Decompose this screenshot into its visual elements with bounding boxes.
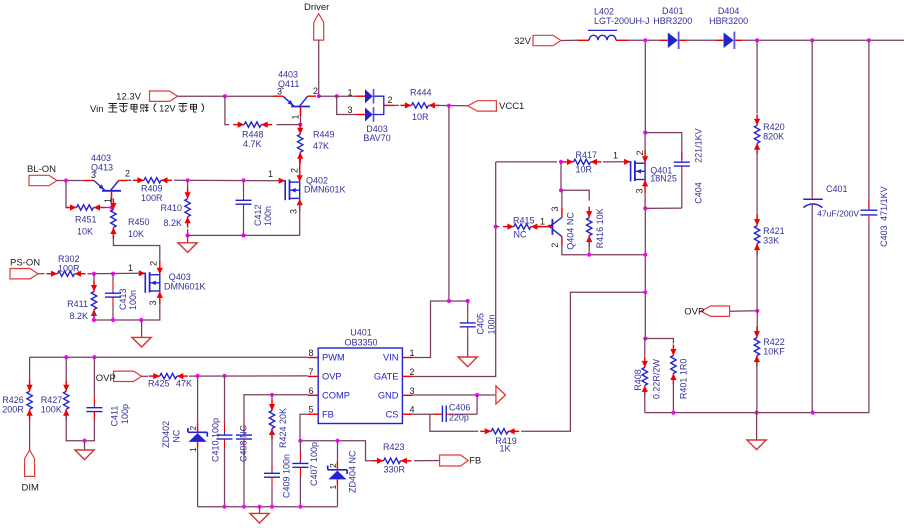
wire drain node up bbox=[644, 133, 646, 150]
svg-text:1: 1 bbox=[103, 198, 113, 203]
inductor L402 bbox=[577, 7, 649, 41]
resistor R426 bbox=[2, 380, 32, 420]
svg-text:1: 1 bbox=[328, 485, 338, 490]
svg-text:C406: C406 bbox=[449, 403, 471, 413]
port 32V bbox=[514, 35, 561, 47]
label Vin circuit annotation (Chinese) bbox=[90, 104, 204, 116]
wire ZD404 to gnd bus bbox=[337, 485, 339, 507]
svg-text:18N25: 18N25 bbox=[650, 174, 677, 184]
svg-text:10K: 10K bbox=[128, 229, 144, 239]
junction gnd bus C408 bbox=[242, 505, 246, 509]
svg-text:BAV70: BAV70 bbox=[363, 133, 390, 143]
capacitor C407 bbox=[292, 441, 319, 507]
transistor Q411 bbox=[273, 70, 318, 120]
svg-text:2: 2 bbox=[313, 86, 318, 96]
svg-text:COMP: COMP bbox=[322, 391, 350, 401]
wire R448 to Q411 pin1 bbox=[276, 124, 300, 126]
svg-text:R427: R427 bbox=[41, 395, 63, 405]
wire R449 to Q402 drain bbox=[299, 156, 301, 170]
svg-text:R444: R444 bbox=[410, 88, 432, 98]
wire R424 top link bbox=[271, 395, 273, 400]
wire R401 bottom bbox=[672, 380, 674, 413]
wire R408 top link bbox=[644, 339, 646, 357]
capacitor C401 bbox=[803, 184, 859, 413]
diode D404 bbox=[709, 6, 748, 49]
svg-text:PWM: PWM bbox=[322, 353, 345, 363]
junction BL-ON/R451 bbox=[64, 178, 68, 182]
port BL-ON bbox=[27, 164, 57, 186]
svg-text:1: 1 bbox=[128, 263, 133, 273]
wire R444 to VCC1 bbox=[431, 104, 468, 106]
svg-text:R451: R451 bbox=[75, 215, 97, 225]
svg-text:1: 1 bbox=[188, 447, 198, 452]
wire R450 to Q403 drain bbox=[113, 230, 159, 262]
wire Q413 pin1 link bbox=[111, 191, 113, 208]
svg-text:R410: R410 bbox=[160, 203, 182, 213]
junction rail gnd bbox=[755, 411, 759, 415]
junction 12.3V/R448 bbox=[223, 94, 227, 98]
svg-text:3: 3 bbox=[347, 105, 352, 115]
resistor R408 bbox=[633, 356, 662, 399]
wire R409 to Q402 gate bbox=[174, 179, 279, 181]
svg-text:C411: C411 bbox=[110, 406, 120, 427]
junction R417/Q404 bbox=[559, 160, 563, 164]
junction R424 top bbox=[270, 393, 274, 397]
junction rail C403 bbox=[867, 38, 871, 42]
junction R448/R449/Q411-1 bbox=[298, 123, 302, 127]
junction R411 top bbox=[92, 272, 96, 276]
junction C413 top bbox=[111, 272, 115, 276]
svg-text:2: 2 bbox=[635, 150, 645, 155]
svg-text:1: 1 bbox=[613, 151, 618, 161]
wire FB wire bbox=[300, 414, 308, 441]
wire C403 top bbox=[868, 40, 870, 207]
capacitor C406 bbox=[434, 395, 478, 422]
junction gnd stem bbox=[139, 318, 143, 322]
resistor R423 bbox=[373, 442, 412, 475]
svg-text:R448: R448 bbox=[242, 130, 264, 140]
resistor R411 bbox=[67, 281, 97, 322]
wire CS sense run bbox=[430, 414, 478, 431]
svg-text:10R: 10R bbox=[412, 112, 429, 122]
svg-text:10KF: 10KF bbox=[763, 347, 785, 357]
wire R416 bottom bbox=[588, 238, 590, 255]
capacitor C411 bbox=[86, 357, 130, 426]
junction R416/bus bbox=[587, 253, 591, 257]
junction rail drain tap bbox=[643, 38, 647, 42]
svg-text:47uF/200V: 47uF/200V bbox=[817, 209, 859, 219]
wire VIN wire bbox=[413, 301, 449, 358]
svg-text:GND: GND bbox=[378, 391, 399, 401]
diode D401 bbox=[653, 6, 692, 49]
svg-text:8.2K: 8.2K bbox=[69, 311, 88, 321]
port Driver bbox=[304, 2, 329, 40]
wire R417 feed bbox=[496, 161, 557, 163]
svg-text:0.22R/2W: 0.22R/2W bbox=[652, 359, 662, 400]
wire VIN node up bbox=[448, 106, 450, 301]
junction gnd bus stem bbox=[257, 505, 261, 509]
svg-text:R424 20K: R424 20K bbox=[278, 408, 288, 448]
svg-text:100n: 100n bbox=[487, 314, 497, 334]
resistor R422 bbox=[754, 327, 786, 367]
svg-text:2: 2 bbox=[550, 243, 560, 248]
junction rail C401 bbox=[810, 38, 814, 42]
svg-text:1: 1 bbox=[410, 348, 415, 358]
svg-text:NC: NC bbox=[172, 429, 182, 442]
capacitor C403 bbox=[860, 186, 889, 412]
port PS-ON bbox=[10, 258, 40, 279]
svg-text:R450: R450 bbox=[128, 217, 150, 227]
wire Q404 emitter down bbox=[562, 246, 645, 255]
junction R411/gnd bbox=[92, 318, 96, 322]
wire C401 top bbox=[811, 40, 813, 196]
wire R408 bottom bbox=[644, 392, 646, 413]
wire R424 to C409 bbox=[271, 431, 273, 470]
junction ZD404 top bbox=[335, 439, 339, 443]
resistor R416 bbox=[586, 207, 605, 249]
svg-text:DMN601K: DMN601K bbox=[304, 185, 346, 195]
wire PS-ON to R302 bbox=[38, 273, 45, 275]
svg-text:3: 3 bbox=[148, 300, 158, 305]
svg-text:1: 1 bbox=[290, 114, 300, 119]
svg-text:R421: R421 bbox=[763, 226, 785, 236]
wire Q402 gnd bus bbox=[188, 234, 300, 236]
svg-text:NC: NC bbox=[514, 230, 527, 240]
svg-text:C403: C403 bbox=[879, 225, 889, 247]
junction Q404/R416 bbox=[559, 188, 563, 192]
capacitor C409 bbox=[264, 454, 292, 507]
svg-text:1K: 1K bbox=[500, 443, 511, 453]
svg-text:PS-ON: PS-ON bbox=[10, 258, 40, 269]
IC U401 OB3350 bbox=[308, 328, 415, 424]
svg-text:FB: FB bbox=[322, 409, 334, 419]
svg-text:R302: R302 bbox=[58, 254, 80, 264]
svg-text:R416 10K: R416 10K bbox=[595, 208, 605, 248]
wire BL-ON down to R451 bbox=[66, 181, 70, 208]
wire to R448 bbox=[225, 96, 229, 124]
resistor R420 bbox=[754, 114, 785, 154]
svg-text:LGT-200UH-J: LGT-200UH-J bbox=[594, 16, 650, 26]
resistor R424 bbox=[269, 400, 288, 449]
wire COMP wire bbox=[244, 395, 308, 432]
wire D403 pin2 to R444 bbox=[394, 104, 399, 106]
wire gnd bus bottom bbox=[198, 506, 338, 508]
svg-text:2: 2 bbox=[188, 426, 198, 431]
svg-text:8.2K: 8.2K bbox=[163, 218, 182, 228]
svg-text:100R: 100R bbox=[141, 193, 163, 203]
junction bus2 bbox=[643, 290, 647, 294]
wire to D403 pin1 bbox=[337, 95, 356, 97]
port FB bbox=[440, 455, 482, 467]
ground bbox=[458, 357, 477, 367]
svg-text:Q403: Q403 bbox=[169, 272, 191, 282]
junction C405 tap bbox=[466, 299, 470, 303]
junction ZD402 top bbox=[196, 374, 200, 378]
junction R451/R450/Q413-1 bbox=[109, 205, 113, 209]
port GND arrow bbox=[496, 386, 506, 404]
wire rail right bbox=[743, 39, 904, 41]
svg-text:3: 3 bbox=[277, 87, 282, 97]
svg-text:3: 3 bbox=[91, 170, 96, 180]
svg-text:3: 3 bbox=[410, 386, 415, 396]
transistor Q413 bbox=[84, 153, 130, 203]
ground bbox=[178, 235, 197, 252]
wire R422 top bbox=[756, 311, 758, 331]
junction C412 bottom bbox=[241, 233, 245, 237]
junction rail R420 bbox=[755, 38, 759, 42]
svg-text:R415: R415 bbox=[513, 216, 535, 226]
wire R427 top link bbox=[65, 357, 67, 380]
wire R410 to bottom bbox=[187, 229, 189, 235]
port DIM bbox=[22, 450, 40, 494]
svg-text:1: 1 bbox=[347, 88, 352, 98]
junction gnd bus C407 bbox=[298, 505, 302, 509]
svg-text:10K: 10K bbox=[77, 227, 93, 237]
transistor Q404 bbox=[536, 206, 575, 249]
junction rail C401 bbox=[811, 411, 815, 415]
zener ZD404 bbox=[328, 450, 358, 493]
svg-text:R408: R408 bbox=[633, 369, 643, 391]
wire Q404 collector node bbox=[560, 162, 562, 190]
svg-text:221/1KV: 221/1KV bbox=[694, 128, 704, 163]
svg-text:R423: R423 bbox=[383, 442, 405, 452]
wire Q411-2 to D403 bbox=[319, 95, 337, 97]
wire R421 to OVP node bbox=[756, 250, 758, 311]
svg-text:33K: 33K bbox=[763, 236, 779, 246]
svg-text:4403: 4403 bbox=[91, 153, 111, 163]
wire L402 to D401 bbox=[629, 39, 660, 41]
svg-text:R449: R449 bbox=[313, 130, 335, 140]
resistor R448 bbox=[233, 122, 272, 150]
junction VCC1 node bbox=[447, 104, 451, 108]
svg-text:HBR3200: HBR3200 bbox=[709, 16, 748, 26]
resistor R425 bbox=[148, 373, 192, 389]
svg-text:47K: 47K bbox=[313, 141, 329, 151]
svg-text:VCC1: VCC1 bbox=[499, 101, 524, 112]
svg-text:C409 100n: C409 100n bbox=[282, 454, 292, 498]
svg-text:C410 100p: C410 100p bbox=[210, 418, 220, 462]
svg-text:DIM: DIM bbox=[22, 483, 40, 494]
svg-text:2: 2 bbox=[410, 367, 415, 377]
svg-text:BL-ON: BL-ON bbox=[27, 164, 56, 175]
svg-text:1: 1 bbox=[540, 217, 545, 227]
svg-text:100n: 100n bbox=[128, 290, 138, 310]
svg-text:Q404 NC: Q404 NC bbox=[566, 212, 576, 250]
junction VIN corner bbox=[447, 299, 451, 303]
resistor R401 bbox=[670, 345, 688, 400]
wire R420-R421 bbox=[756, 150, 758, 219]
resistor R427 bbox=[41, 380, 70, 420]
MOSFET Q402 bbox=[268, 168, 346, 214]
wire Q402 source down bbox=[299, 198, 301, 235]
svg-text:U401: U401 bbox=[350, 328, 372, 338]
diode D403 bbox=[347, 88, 394, 144]
wire R417 to Q401 gate bbox=[603, 161, 625, 163]
ground bbox=[75, 441, 94, 460]
wire ZD404 stem bbox=[337, 441, 339, 461]
wire Q404 collector bbox=[561, 190, 563, 207]
resistor R302 bbox=[47, 254, 86, 277]
wire Q401 source down bbox=[644, 193, 646, 209]
resistor R409 bbox=[133, 177, 172, 203]
svg-text:C401: C401 bbox=[826, 184, 848, 194]
wire R422 to rail bbox=[756, 362, 758, 413]
resistor R451 bbox=[66, 204, 105, 236]
wire OVP to R425 bbox=[142, 375, 148, 377]
junction R409/R410 bbox=[186, 178, 190, 182]
svg-text:32V: 32V bbox=[514, 36, 532, 47]
resistor R417 bbox=[563, 150, 602, 175]
capacitor C408 bbox=[236, 424, 252, 507]
wire PWM left drop bbox=[29, 357, 31, 385]
junction Q411-2/Driver bbox=[317, 94, 321, 98]
svg-text:CS: CS bbox=[386, 409, 399, 419]
wire R401 branch bbox=[645, 339, 673, 344]
svg-text:220p: 220p bbox=[449, 412, 469, 422]
svg-text:471/1KV: 471/1KV bbox=[879, 186, 889, 221]
wire CS wire bbox=[413, 413, 442, 415]
svg-text:C413: C413 bbox=[118, 288, 128, 310]
wire R419 to source node bbox=[521, 292, 645, 431]
wire R302 to Q403 gate bbox=[88, 272, 140, 274]
port OVP right bbox=[684, 306, 729, 318]
wire Q411 pin1 link bbox=[300, 107, 302, 125]
junction C412 top bbox=[241, 178, 245, 182]
junction gnd tap bbox=[82, 439, 86, 443]
svg-text:D401: D401 bbox=[662, 6, 684, 16]
resistor R444 bbox=[400, 88, 439, 123]
svg-text:FB: FB bbox=[469, 456, 481, 467]
svg-text:Vin: Vin bbox=[90, 104, 104, 115]
svg-text:HBR3200: HBR3200 bbox=[653, 16, 692, 26]
wire C404 top link bbox=[645, 133, 682, 160]
svg-text:C412: C412 bbox=[253, 204, 263, 226]
junction R408/R401 top bbox=[643, 336, 647, 340]
capacitor C405 bbox=[460, 301, 497, 357]
svg-text:6: 6 bbox=[309, 386, 314, 396]
junction C411 top bbox=[92, 355, 96, 359]
wire R415 link bbox=[496, 226, 500, 228]
wire OVP port link bbox=[730, 310, 758, 312]
wire 32V to L402 bbox=[561, 39, 577, 41]
wire PWM net bbox=[30, 356, 308, 358]
svg-text:5: 5 bbox=[309, 405, 314, 415]
resistor R421 bbox=[754, 215, 785, 255]
junction rail R401 bbox=[671, 411, 675, 415]
svg-text:12V: 12V bbox=[159, 104, 176, 114]
wire ZD402 stem bbox=[197, 376, 199, 424]
MOSFET Q401 bbox=[613, 150, 677, 194]
svg-text:100R: 100R bbox=[58, 264, 80, 274]
junction GND/C406 bbox=[475, 393, 479, 397]
svg-text:3: 3 bbox=[635, 188, 645, 193]
svg-text:47K: 47K bbox=[176, 379, 192, 389]
junction Q401 drain node bbox=[643, 131, 647, 135]
svg-text:200R: 200R bbox=[2, 405, 24, 415]
svg-text:R425: R425 bbox=[148, 379, 170, 389]
wire D401 to D404 bbox=[687, 39, 716, 41]
svg-text:330R: 330R bbox=[384, 465, 406, 475]
svg-text:R401 1R0: R401 1R0 bbox=[679, 359, 689, 400]
svg-text:Driver: Driver bbox=[304, 2, 329, 13]
svg-text:2: 2 bbox=[290, 168, 300, 173]
wire R426 to DIM bbox=[29, 416, 31, 450]
junction R410/gnd wire bbox=[186, 233, 190, 237]
capacitor C404 bbox=[674, 128, 704, 208]
wire R411 top link bbox=[93, 274, 95, 281]
svg-text:OB3350: OB3350 bbox=[344, 338, 377, 348]
junction R427 top bbox=[64, 355, 68, 359]
resistor R415 bbox=[503, 216, 542, 240]
svg-text:DMN601K: DMN601K bbox=[164, 282, 206, 292]
MOSFET Q403 bbox=[128, 261, 206, 306]
svg-text:2: 2 bbox=[387, 95, 392, 105]
wire GATE wire bbox=[413, 162, 496, 377]
wire to D403 pin3 bbox=[337, 96, 356, 114]
svg-text:8: 8 bbox=[309, 348, 314, 358]
wire R451 to node bbox=[102, 207, 112, 209]
wire R416 link bbox=[561, 190, 589, 200]
wire C405 link bbox=[449, 300, 468, 302]
capacitor C410 bbox=[210, 376, 232, 507]
capacitor C412 bbox=[236, 180, 274, 235]
ground bbox=[747, 413, 766, 450]
wire GND wire bbox=[413, 394, 496, 396]
wire R411 bottom bbox=[93, 312, 95, 320]
wire C404 bottom link bbox=[645, 207, 682, 209]
svg-text:100K: 100K bbox=[41, 405, 62, 415]
svg-text:4403: 4403 bbox=[278, 70, 298, 80]
svg-text:C404: C404 bbox=[694, 182, 704, 204]
svg-text:2: 2 bbox=[328, 463, 338, 468]
capacitor C413 bbox=[105, 274, 138, 320]
svg-text:1: 1 bbox=[268, 169, 273, 179]
junction gnd bus C409 bbox=[270, 505, 274, 509]
port VCC1 bbox=[468, 101, 525, 113]
svg-text:C405: C405 bbox=[476, 313, 486, 335]
svg-text:7: 7 bbox=[309, 367, 314, 377]
wire Q403 source gnd bus bbox=[94, 304, 160, 320]
svg-text:VIN: VIN bbox=[383, 353, 399, 363]
resistor R419 bbox=[480, 428, 519, 453]
svg-text:2: 2 bbox=[125, 169, 130, 179]
svg-text:OVP: OVP bbox=[322, 372, 342, 382]
wire BL-ON to Q413 base bbox=[57, 180, 84, 182]
zener ZD402 bbox=[161, 421, 207, 452]
svg-text:R426: R426 bbox=[2, 395, 24, 405]
junction OVP tap bbox=[755, 309, 759, 313]
wire 12.3V to Q411 base bbox=[178, 95, 274, 97]
ground bbox=[250, 507, 269, 523]
svg-text:4: 4 bbox=[410, 405, 415, 415]
wire Q413-2 to R409 bbox=[127, 179, 132, 181]
svg-text:ZD404 NC: ZD404 NC bbox=[348, 450, 358, 493]
resistor R410 bbox=[160, 188, 190, 228]
junction C410 top bbox=[222, 374, 226, 378]
wire R427 bottom bbox=[66, 412, 94, 441]
wire Driver to node bbox=[318, 40, 320, 96]
svg-text:R422: R422 bbox=[763, 337, 785, 347]
svg-text:3: 3 bbox=[289, 209, 299, 214]
wire R423 to FB port bbox=[414, 460, 440, 462]
svg-text:10R: 10R bbox=[576, 165, 593, 175]
wire R410 top link bbox=[187, 180, 189, 188]
junction bus1 bbox=[643, 253, 647, 257]
junction D403 anodes bbox=[335, 94, 339, 98]
svg-text:820K: 820K bbox=[763, 132, 784, 142]
junction gnd bus C410 bbox=[222, 505, 226, 509]
resistor R450 bbox=[110, 199, 149, 240]
